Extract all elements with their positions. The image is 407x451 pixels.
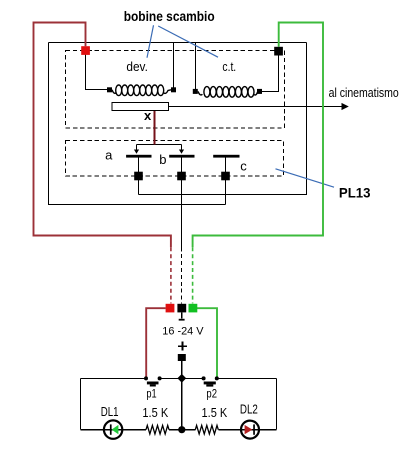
svg-text:b: b [159, 152, 166, 167]
svg-text:PL13: PL13 [339, 185, 371, 201]
svg-text:p2: p2 [206, 387, 217, 401]
svg-text:p1: p1 [146, 387, 157, 401]
svg-text:c.t.: c.t. [222, 59, 236, 74]
svg-text:x: x [144, 108, 152, 123]
svg-text:16 -24 V: 16 -24 V [162, 325, 204, 337]
svg-text:DL2: DL2 [240, 402, 258, 417]
svg-text:c: c [240, 158, 247, 173]
svg-text:a: a [105, 148, 113, 163]
svg-text:1.5 K: 1.5 K [202, 405, 228, 420]
svg-text:dev.: dev. [126, 59, 147, 74]
svg-text:al cinematismo: al cinematismo [329, 85, 399, 100]
svg-text:DL1: DL1 [101, 404, 119, 419]
svg-text:bobine scambio: bobine scambio [124, 8, 215, 24]
svg-text:1.5 K: 1.5 K [142, 405, 168, 420]
